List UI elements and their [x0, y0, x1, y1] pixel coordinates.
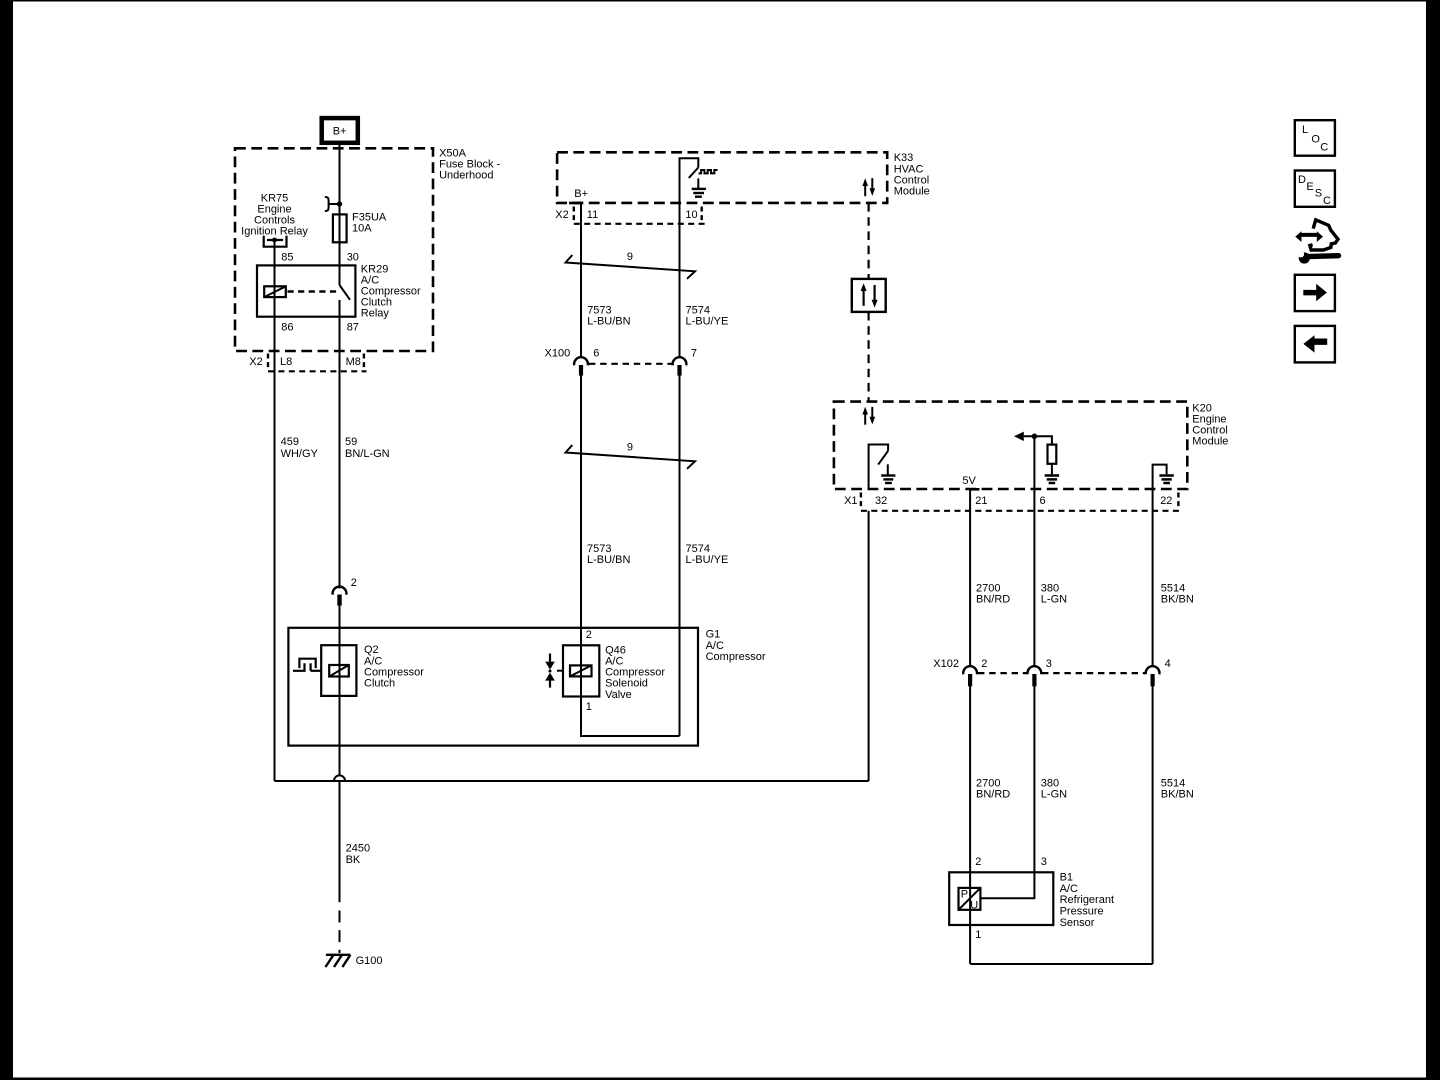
svg-text:85: 85 [281, 251, 293, 263]
svg-text:BN/RD: BN/RD [976, 593, 1010, 605]
svg-text:G100: G100 [356, 955, 383, 967]
svg-text:Underhood: Underhood [439, 169, 493, 181]
svg-text:2: 2 [586, 629, 592, 641]
svg-text:10: 10 [685, 209, 697, 221]
svg-text:BK: BK [346, 854, 361, 866]
svg-text:3: 3 [1041, 856, 1047, 868]
svg-text:21: 21 [975, 495, 987, 507]
svg-text:2: 2 [975, 856, 981, 868]
svg-text:L: L [1302, 124, 1308, 136]
svg-text:Clutch: Clutch [364, 678, 395, 690]
svg-text:459: 459 [281, 436, 299, 448]
svg-text:Compressor: Compressor [706, 651, 766, 663]
svg-text:87: 87 [347, 322, 359, 334]
svg-text:C: C [1323, 195, 1331, 207]
svg-text:11: 11 [587, 209, 598, 221]
svg-text:Ignition Relay: Ignition Relay [241, 225, 308, 237]
svg-text:Q2: Q2 [364, 644, 379, 656]
svg-text:86: 86 [281, 322, 293, 334]
svg-text:Sensor: Sensor [1060, 917, 1095, 929]
svg-text:2: 2 [351, 577, 357, 589]
svg-text:9: 9 [627, 441, 633, 453]
svg-text:Refrigerant: Refrigerant [1060, 894, 1114, 906]
svg-text:X100: X100 [545, 347, 571, 359]
svg-text:M8: M8 [346, 356, 361, 368]
svg-text:Relay: Relay [361, 307, 390, 319]
svg-text:6: 6 [593, 347, 599, 359]
svg-text:B+: B+ [574, 188, 588, 200]
svg-text:9: 9 [627, 251, 633, 263]
svg-text:X102: X102 [933, 658, 959, 670]
svg-text:X1: X1 [844, 495, 857, 507]
svg-text:BN/RD: BN/RD [976, 788, 1010, 800]
svg-text:32: 32 [875, 495, 887, 507]
svg-text:A/C: A/C [1060, 883, 1078, 895]
svg-text:L-BU/BN: L-BU/BN [587, 554, 630, 566]
svg-text:22: 22 [1160, 495, 1172, 507]
svg-text:1: 1 [975, 929, 981, 941]
svg-text:BK/BN: BK/BN [1161, 593, 1194, 605]
svg-text:2450: 2450 [346, 843, 370, 855]
svg-text:S: S [1315, 188, 1322, 200]
svg-text:WH/GY: WH/GY [281, 448, 319, 460]
svg-text:A/C: A/C [605, 655, 623, 667]
svg-text:Module: Module [894, 186, 930, 198]
svg-text:L-BU/YE: L-BU/YE [686, 316, 729, 328]
svg-text:30: 30 [347, 251, 359, 263]
svg-text:P: P [961, 889, 968, 901]
svg-text:Compressor: Compressor [364, 667, 424, 679]
svg-text:10A: 10A [352, 223, 372, 235]
svg-text:Solenoid: Solenoid [605, 678, 648, 690]
svg-text:7: 7 [691, 347, 697, 359]
svg-text:B1: B1 [1060, 871, 1073, 883]
svg-text:L-BU/YE: L-BU/YE [686, 554, 729, 566]
svg-text:4: 4 [1165, 658, 1171, 670]
svg-text:U: U [970, 900, 978, 912]
svg-text:E: E [1306, 181, 1313, 193]
svg-text:Module: Module [1192, 436, 1228, 448]
svg-text:2: 2 [981, 658, 987, 670]
svg-text:Pressure: Pressure [1060, 906, 1104, 918]
svg-text:6: 6 [1040, 495, 1046, 507]
svg-text:5V: 5V [962, 475, 976, 487]
svg-text:L8: L8 [280, 356, 292, 368]
svg-text:O: O [1311, 134, 1320, 146]
svg-text:B+: B+ [333, 125, 347, 137]
svg-text:BK/BN: BK/BN [1161, 788, 1194, 800]
svg-text:L-GN: L-GN [1041, 593, 1067, 605]
svg-text:X2: X2 [249, 356, 262, 368]
svg-text:X2: X2 [555, 209, 568, 221]
svg-text:L-GN: L-GN [1041, 788, 1067, 800]
svg-text:59: 59 [345, 436, 357, 448]
svg-text:D: D [1298, 174, 1306, 186]
svg-text:1: 1 [586, 701, 592, 713]
svg-text:Valve: Valve [605, 689, 632, 701]
svg-text:BN/L-GN: BN/L-GN [345, 448, 390, 460]
svg-text:3: 3 [1046, 658, 1052, 670]
svg-text:C: C [1320, 142, 1328, 154]
svg-text:L-BU/BN: L-BU/BN [587, 316, 630, 328]
